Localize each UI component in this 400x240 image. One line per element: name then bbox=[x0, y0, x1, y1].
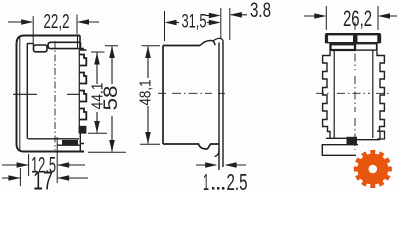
dimension 3,8 extension line left bbox=[220, 8, 222, 38]
middle view: section outline left/top bbox=[163, 46, 200, 145]
svg-text:1: 1 bbox=[203, 169, 209, 192]
dimension 58 extension ticks bbox=[88, 46, 126, 152]
left view upper long slot bar bbox=[48, 42, 84, 48]
middle view back wall foot hook bbox=[215, 148, 220, 157]
tooth 3 bbox=[79, 91, 86, 102]
right view inner cavity walls bbox=[334, 50, 373, 138]
middle view horizontal centerline bbox=[158, 92, 225, 94]
right view left outer toothed edge bbox=[323, 52, 330, 138]
left view hidden edge at bar right bbox=[77, 36, 79, 49]
left view right face bbox=[80, 36, 87, 51]
left view top inner ledge bbox=[27, 43, 34, 45]
dimension 3,8 left outside arrow bbox=[205, 15, 210, 17]
left view lower latch slot (dark) bbox=[62, 140, 78, 145]
left view upper small latch slot bbox=[34, 45, 48, 52]
left view: housing side outline bbox=[17, 36, 85, 152]
dimension 1...2,5 arrows bbox=[196, 164, 216, 166]
middle view back wall double line bbox=[219, 41, 223, 171]
right view vertical centerline bbox=[354, 22, 356, 150]
svg-text:58: 58 bbox=[101, 86, 122, 111]
middle view bottom edge with notch bbox=[163, 144, 219, 149]
watermark gear logo bbox=[354, 151, 391, 188]
dimension 22,2 arrows bbox=[8, 21, 32, 23]
dimension 26,2 arrows bbox=[304, 15, 325, 17]
dimension 26,2 extension lines bbox=[326, 6, 378, 30]
svg-text:3.8: 3.8 bbox=[250, 0, 271, 22]
dimension 17 arrows bbox=[2, 177, 20, 179]
tooth 1 bbox=[79, 55, 86, 66]
right view: top flange bbox=[326, 33, 381, 35]
svg-text:31,5: 31,5 bbox=[182, 12, 207, 33]
dimension 3,8 extension line right bbox=[229, 8, 231, 40]
left view horizontal centerline bbox=[13, 93, 79, 95]
right view bottom plate bbox=[322, 145, 358, 156]
svg-text:48,1: 48,1 bbox=[138, 79, 155, 105]
tooth 4 bbox=[79, 109, 86, 120]
right view flange center divider bbox=[353, 35, 358, 43]
svg-text:17: 17 bbox=[33, 166, 53, 193]
dimension 22,2 extension lines bbox=[33, 15, 77, 47]
right view flange right cap bbox=[377, 35, 380, 43]
svg-text:26,2: 26,2 bbox=[343, 6, 372, 31]
right view horizontal centerline bbox=[316, 92, 390, 94]
right view collar band bbox=[330, 43, 377, 52]
left view lower slot lines bbox=[57, 144, 81, 146]
dimension 44,1 line bbox=[96, 53, 98, 133]
right view flange left cap bbox=[326, 35, 329, 43]
right view bottom dark tab bbox=[347, 137, 358, 144]
dimension 44,1 extension ticks bbox=[88, 52, 107, 133]
tooth 5 bottom stub bbox=[79, 127, 86, 134]
gear hub hole bbox=[369, 165, 378, 174]
right view bottom structure bbox=[326, 132, 380, 140]
middle view lip curve to back wall bbox=[214, 38, 224, 40]
svg-text:22,2: 22,2 bbox=[44, 11, 70, 33]
right view right outer toothed edge bbox=[377, 52, 384, 132]
left view lower right face bbox=[80, 133, 84, 151]
tooth 2 bbox=[79, 73, 86, 84]
dimension 48,1 extension ticks bbox=[140, 46, 160, 145]
dimension 3,8 right outside arrow bbox=[231, 14, 247, 16]
dimension 31,5 extension line bbox=[164, 11, 166, 41]
middle view top latch ramp bbox=[200, 40, 215, 45]
dimension 17 extension line bbox=[19, 168, 21, 186]
svg-text:2.5: 2.5 bbox=[227, 169, 248, 192]
left view inner front wall line bbox=[19, 38, 21, 150]
dimension 12,5 extension lines bbox=[29, 137, 58, 183]
left view inner cavity wall bbox=[26, 44, 28, 139]
right view bottom right bump bbox=[377, 131, 385, 139]
right view collar slot (thick) bbox=[331, 44, 356, 50]
dimension 31,5 arrows bbox=[165, 20, 177, 26]
dimension 12,5 arrows bbox=[2, 164, 28, 166]
dimension 58 line bbox=[111, 47, 113, 152]
right view collar window bbox=[356, 44, 377, 50]
dimension 48,1 line bbox=[147, 47, 149, 144]
left view toothed clamp edge bbox=[78, 50, 80, 133]
left view vertical centerline bbox=[54, 41, 56, 150]
left view lower inner ledge bbox=[28, 138, 79, 140]
